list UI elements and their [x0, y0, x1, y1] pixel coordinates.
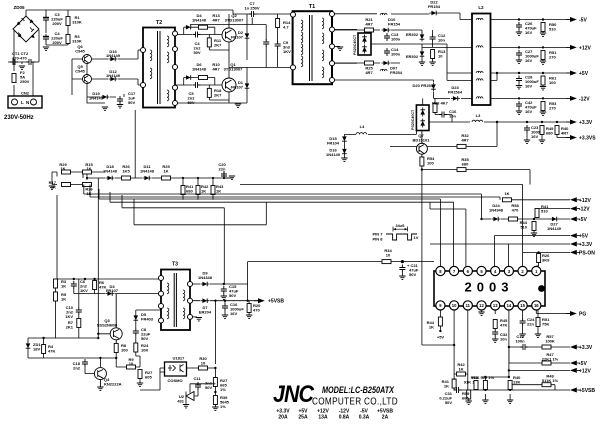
diode D2: [245, 32, 250, 41]
wire L4 row: [344, 131, 416, 135]
svg-text:10: 10: [129, 361, 134, 366]
svg-text:L2: L2: [478, 5, 484, 10]
wire gate: [28, 279, 110, 338]
resistor R38: [433, 104, 437, 113]
svg-text:PS20C40CT: PS20C40CT: [353, 34, 357, 55]
resistor R58: [509, 217, 518, 221]
svg-text:C945: C945: [75, 69, 85, 74]
svg-text:605: 605: [145, 375, 152, 380]
resistor R50: [541, 23, 545, 32]
wire +5V sense: [494, 236, 570, 266]
svg-text:16V: 16V: [525, 109, 532, 114]
pin 8: [436, 266, 445, 275]
resistor R34: [382, 260, 391, 264]
svg-text:1K: 1K: [504, 191, 509, 196]
wire pin14: [508, 310, 510, 377]
svg-text:+5VSB: +5VSB: [268, 299, 284, 305]
resistor R44: [438, 317, 442, 326]
resistor R19b: [483, 381, 487, 390]
wire vcc row: [248, 262, 434, 301]
diode D1: [245, 82, 250, 91]
diode D8b: [420, 50, 425, 59]
svg-text:CN2: CN2: [21, 91, 30, 96]
svg-text:BD15101: BD15101: [413, 138, 431, 143]
svg-text:510: 510: [549, 27, 556, 32]
svg-text:100n: 100n: [391, 37, 401, 42]
svg-text:1%: 1%: [220, 387, 226, 392]
svg-text:1N4149: 1N4149: [547, 226, 562, 231]
resistor R7: [77, 319, 81, 328]
capacitor C10: [78, 279, 80, 307]
wire base drive Q1: [175, 78, 229, 101]
svg-text:1N4149: 1N4149: [89, 96, 104, 101]
svg-text:1N4348: 1N4348: [489, 208, 504, 213]
transformer T1: [293, 11, 332, 84]
svg-text:4R7: 4R7: [212, 67, 220, 72]
svg-text:1N4148: 1N4148: [140, 169, 155, 174]
resistor R25: [365, 61, 374, 65]
svg-text:50V: 50V: [205, 385, 212, 390]
svg-text:-12V: -12V: [579, 96, 590, 102]
transformer T3: [161, 270, 190, 331]
resistor R17: [62, 183, 71, 187]
capacitor C17: [117, 96, 123, 104]
transistor Q6: [83, 55, 92, 64]
svg-text:100: 100: [121, 348, 128, 353]
resistor R20: [247, 304, 251, 313]
resistor R35: [457, 168, 466, 172]
svg-text:1N4148: 1N4148: [192, 67, 207, 72]
diode D10: [382, 28, 391, 33]
svg-text:+5V: +5V: [579, 71, 589, 77]
resistor R61: [541, 76, 545, 85]
table ratings: [276, 409, 393, 421]
resistor R44b: [532, 222, 536, 231]
transistor Q1: [222, 78, 236, 92]
svg-text:2003: 2003: [465, 280, 514, 295]
resistor R36: [83, 183, 92, 187]
wire T1 ground: [335, 45, 341, 47]
wire standby top rail: [57, 178, 161, 279]
resistor R32: [457, 144, 466, 148]
pin 15: [518, 301, 527, 310]
wire pin10: [422, 310, 454, 380]
svg-text:FR254: FR254: [390, 70, 403, 75]
op-amp U5 2003: [434, 271, 545, 306]
resistor R9: [127, 365, 136, 369]
wire bus jog pin6: [430, 202, 466, 266]
diode D5b: [134, 314, 139, 323]
svg-text:12: 12: [479, 303, 484, 308]
diode D20: [431, 83, 436, 92]
svg-text:25A: 25A: [298, 415, 308, 421]
svg-text:PIN 8: PIN 8: [373, 237, 384, 242]
svg-text:15: 15: [520, 303, 525, 308]
svg-text:+12V: +12V: [579, 45, 591, 51]
capacitor C12: [430, 34, 436, 42]
svg-text:KN2222A: KN2222A: [104, 382, 122, 387]
svg-text:431: 431: [177, 399, 184, 404]
capacitor C11: [195, 382, 201, 390]
resistor R13: [199, 25, 208, 29]
svg-text:16: 16: [534, 303, 539, 308]
capacitor C13: [384, 33, 390, 41]
svg-text:16V: 16V: [525, 58, 532, 63]
svg-text:511K 1%: 511K 1%: [542, 378, 559, 383]
svg-text:34uS: 34uS: [395, 224, 405, 228]
capacitor C9: [275, 41, 281, 49]
wire bus y197: [90, 185, 500, 200]
svg-text:50V: 50V: [141, 336, 148, 341]
wire -5V row: [472, 19, 570, 21]
svg-text:FR1564: FR1564: [448, 90, 463, 95]
wire +3.3V sense: [430, 244, 570, 266]
svg-text:1N4149: 1N4149: [106, 73, 121, 78]
svg-text:1K: 1K: [201, 189, 206, 194]
capacitor C4b: [193, 32, 201, 38]
resistor R27c: [213, 378, 217, 387]
rectifier U4 PS20C40CT: [416, 105, 429, 131]
svg-text:PS20C40CT: PS20C40CT: [411, 109, 415, 130]
svg-text:16V: 16V: [525, 30, 532, 35]
diode D9: [193, 283, 248, 285]
svg-text:100K: 100K: [545, 339, 555, 344]
svg-text:+5V: +5V: [437, 335, 445, 340]
svg-text:817: 817: [178, 356, 185, 361]
wire driver Q6 Q5: [72, 50, 141, 103]
arrow +5VSB: [254, 298, 265, 303]
svg-text:1K: 1K: [61, 297, 66, 302]
resistor R10: [199, 76, 208, 80]
svg-text:14: 14: [507, 303, 512, 308]
svg-text:2n2: 2n2: [73, 366, 81, 371]
arrow -5V sense: [570, 217, 580, 222]
wire -5V sense row: [482, 218, 571, 220]
svg-text:50V: 50V: [193, 50, 200, 55]
svg-text:1K: 1K: [429, 325, 434, 330]
capacitor C16b: [439, 112, 447, 118]
svg-text:510: 510: [541, 209, 548, 214]
svg-text:3TD13007: 3TD13007: [225, 18, 244, 23]
svg-text:L3: L3: [476, 113, 481, 118]
svg-text:T2: T2: [156, 20, 162, 26]
svg-text:L4: L4: [360, 124, 365, 129]
svg-text:16V: 16V: [525, 84, 532, 89]
resistor R51b: [536, 318, 540, 327]
wire pin9: [439, 310, 441, 317]
pin 13: [491, 301, 500, 310]
svg-text:4R7: 4R7: [365, 22, 373, 27]
svg-text:470-470: 470-470: [12, 56, 27, 61]
svg-text:20A: 20A: [278, 415, 288, 421]
wire PS-ON: [523, 185, 570, 267]
wire +12V comp: [509, 369, 570, 371]
svg-text:1N4348: 1N4348: [198, 275, 213, 280]
wire feedback row: [52, 172, 233, 185]
wire R35 row: [422, 166, 530, 345]
pin 5: [477, 266, 486, 275]
wire PG: [536, 310, 570, 314]
svg-text:1K: 1K: [458, 367, 463, 372]
wire +5V row: [491, 73, 571, 80]
svg-text:50V: 50V: [128, 100, 135, 105]
wire bus y202: [110, 192, 454, 266]
wire pin11: [467, 310, 469, 374]
diode D15: [342, 135, 347, 144]
svg-text:4.7: 4.7: [283, 25, 289, 30]
arrow +3.3V: [566, 120, 577, 125]
wire base drive Q2: [175, 27, 229, 50]
resistor R42c: [457, 372, 466, 376]
svg-text:4R7: 4R7: [461, 138, 469, 143]
svg-text:16V: 16V: [531, 134, 538, 139]
resistor R28 1K: [503, 198, 512, 202]
pin 2: [518, 266, 527, 275]
resistor R59: [467, 390, 471, 399]
wire -12 feed: [335, 80, 473, 98]
capacitor C9b: [263, 39, 269, 47]
wire HV+ top rail: [26, 10, 293, 17]
svg-text:1N4149: 1N4149: [106, 53, 121, 58]
svg-text:1K: 1K: [216, 189, 221, 194]
wire half bridge: [175, 14, 229, 103]
resistor R41d: [452, 379, 456, 388]
resistor R26b: [122, 176, 131, 180]
inductor L3: [429, 121, 570, 123]
svg-text:10: 10: [452, 303, 457, 308]
wire -12V row: [491, 97, 571, 99]
connector CN2: [8, 96, 42, 108]
resistor R11: [207, 38, 211, 47]
regulator U2 431: [186, 392, 194, 401]
resistor R39: [213, 396, 217, 405]
svg-text:3K9: 3K9: [542, 258, 550, 263]
resistor R41b: [181, 186, 185, 195]
resistor R47: [509, 347, 570, 363]
svg-text:200V: 200V: [52, 21, 62, 26]
resistor R49: [540, 126, 544, 135]
capacitor C14: [384, 48, 390, 56]
capacitor C21: [399, 265, 405, 273]
svg-text:-5V: -5V: [579, 361, 587, 367]
pin 12: [477, 301, 486, 310]
bead L6: [380, 69, 387, 71]
pin 1: [532, 266, 541, 275]
svg-text:1N4148: 1N4148: [103, 169, 118, 174]
diode D4: [184, 25, 193, 30]
svg-text:+12V: +12V: [579, 368, 591, 374]
resistor R27b: [138, 370, 142, 379]
rectifier U3 PS20C40CT: [358, 33, 371, 55]
svg-text:-12V: -12V: [579, 207, 590, 213]
arrow +5V: [566, 71, 577, 76]
svg-text:+3.3V: +3.3V: [579, 242, 593, 248]
svg-text:1K: 1K: [60, 166, 65, 171]
svg-text:1K: 1K: [444, 384, 449, 389]
capacitor C15: [221, 286, 227, 294]
capacitor C6: [71, 281, 77, 289]
diode D07: [382, 61, 391, 66]
svg-text:470: 470: [253, 308, 260, 313]
svg-text:1K: 1K: [86, 191, 91, 196]
svg-text:L: L: [21, 100, 24, 105]
svg-text:SSS2N60B: SSS2N60B: [97, 323, 118, 328]
resistor R53: [541, 102, 545, 111]
wire bridge to input: [8, 10, 39, 96]
svg-text:18V: 18V: [33, 347, 40, 352]
ground pin12: [481, 310, 483, 312]
resistor R41c: [535, 209, 539, 218]
wire Q7 row: [390, 122, 497, 146]
svg-text:510: 510: [520, 225, 527, 230]
diode D7: [193, 300, 259, 302]
resistor R18: [207, 88, 211, 97]
svg-text:-5V: -5V: [579, 217, 587, 223]
diode D12: [109, 77, 118, 82]
wire CT row: [17, 62, 36, 64]
arrow -12V sense: [570, 206, 580, 211]
capacitor C20: [221, 171, 227, 179]
capacitor C5: [193, 82, 201, 88]
diode D24: [492, 217, 501, 222]
pin 4: [491, 266, 500, 275]
resistor R13b: [431, 50, 435, 59]
capacitor C24: [522, 310, 524, 318]
svg-text:2K7: 2K7: [214, 93, 222, 98]
svg-text:1%: 1%: [220, 404, 226, 409]
svg-text:FR154: FR154: [388, 22, 401, 27]
pin 9: [436, 301, 445, 310]
svg-text:C945: C945: [75, 49, 85, 54]
diode D8: [420, 33, 425, 42]
svg-text:0.8A: 0.8A: [339, 415, 350, 421]
resistor R8: [114, 344, 118, 353]
svg-text:665: 665: [462, 396, 469, 401]
waveform pin7 pin8: [386, 234, 417, 240]
capacitor C26: [516, 22, 522, 30]
transistor Q4: [94, 368, 106, 380]
svg-text:1K: 1K: [163, 169, 168, 174]
transistor Q5: [83, 75, 92, 84]
svg-text:310K: 310K: [72, 20, 82, 25]
diode D23: [451, 96, 460, 101]
diode D16: [109, 57, 118, 62]
inductor L4: [356, 133, 367, 135]
wire bus y194: [84, 185, 482, 220]
svg-text:ER302: ER302: [406, 32, 419, 37]
wire +3.3V row: [496, 121, 498, 123]
svg-text:10n: 10n: [500, 337, 507, 342]
resistor R26c: [537, 254, 541, 263]
svg-text:13A: 13A: [318, 415, 328, 421]
resistor R54: [420, 157, 424, 166]
svg-text:680: 680: [462, 162, 469, 167]
svg-text:13: 13: [493, 303, 498, 308]
fuse F2: [12, 74, 16, 83]
svg-text:47K: 47K: [500, 323, 507, 328]
resistor R48: [509, 385, 555, 390]
resistor R57: [542, 345, 551, 349]
svg-text:4R7: 4R7: [561, 131, 569, 136]
zener ZD1: [26, 342, 31, 351]
svg-text:22K1 1%: 22K1 1%: [542, 357, 559, 362]
wire +12V row: [491, 46, 571, 48]
transistor Q2: [222, 28, 236, 42]
svg-text:22n: 22n: [219, 167, 226, 172]
wire bus y199: [99, 189, 440, 266]
ground: [43, 47, 49, 50]
svg-text:10n: 10n: [438, 38, 445, 43]
wire opto feed: [160, 301, 215, 372]
svg-text:10K: 10K: [141, 348, 148, 353]
svg-text:1K: 1K: [86, 166, 91, 171]
resistor R5b: [54, 292, 58, 301]
svg-text:11: 11: [466, 303, 471, 308]
svg-text:200V: 200V: [52, 40, 62, 45]
svg-text:50V: 50V: [187, 100, 194, 105]
svg-text:FR107: FR107: [231, 85, 244, 90]
svg-text:N: N: [26, 100, 29, 105]
wire source row: [28, 358, 116, 367]
arrow -12V: [566, 96, 577, 101]
svg-text:FR107: FR107: [106, 288, 119, 293]
svg-text:PG: PG: [579, 312, 586, 318]
svg-text:FR107: FR107: [231, 35, 244, 40]
svg-text:22n: 22n: [527, 322, 534, 327]
resistor R42b: [196, 186, 200, 195]
optocoupler U1: [165, 362, 187, 376]
svg-text:1KV: 1KV: [65, 314, 73, 319]
svg-text:10: 10: [201, 361, 206, 366]
diode D11: [143, 176, 152, 181]
wire cap bank verticals: [46, 23, 68, 45]
svg-text:270: 270: [549, 106, 556, 111]
svg-text:+5V: +5V: [579, 234, 589, 240]
capacitor C32: [492, 329, 498, 337]
wire +5 feed: [335, 44, 473, 80]
resistor R4: [42, 345, 46, 354]
svg-text:PS-ON: PS-ON: [579, 250, 595, 256]
svg-text:ER302: ER302: [406, 54, 419, 59]
svg-text:2K1: 2K1: [66, 325, 74, 330]
wire +3.3V comp row: [509, 346, 570, 348]
capacitor C27: [516, 50, 522, 58]
svg-text:1N4148: 1N4148: [192, 18, 207, 23]
diode D22: [430, 11, 439, 16]
svg-text:3TD13007: 3TD13007: [224, 67, 243, 72]
wire +5VSB sense: [454, 389, 570, 391]
resistor R6: [93, 281, 97, 290]
svg-text:4R7: 4R7: [212, 18, 220, 23]
svg-text:FR154: FR154: [428, 4, 441, 9]
diode D18: [106, 176, 115, 181]
svg-text:50V: 50V: [409, 272, 416, 277]
resistor R30: [199, 366, 208, 370]
svg-text:4R7: 4R7: [365, 70, 373, 75]
wire HV to standby: [56, 172, 58, 279]
capacitor C3: [43, 15, 49, 23]
capacitor C4: [43, 34, 49, 42]
capacitor C8: [133, 328, 139, 336]
capacitor C7: [249, 11, 257, 17]
arrow +12V sense: [570, 197, 580, 202]
capacitor CT2: [26, 59, 34, 65]
resistor R40b: [508, 381, 512, 390]
svg-text:310K: 310K: [72, 39, 82, 44]
wire R14 C9 snubber: [277, 14, 279, 67]
svg-text:100: 100: [549, 80, 556, 85]
resistor R25b: [162, 176, 171, 180]
